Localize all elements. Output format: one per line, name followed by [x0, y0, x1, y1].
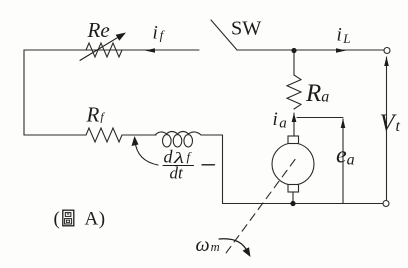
- node junction bottom: [290, 201, 295, 206]
- terminal bottom: [383, 201, 389, 207]
- measurement line Vt: [386, 57, 388, 200]
- wire top right segment: [237, 49, 384, 51]
- wire left vertical: [23, 50, 25, 135]
- arrow ia (up): [292, 113, 297, 122]
- wire top left segment: [24, 49, 199, 51]
- label (圖 A): [54, 209, 106, 230]
- svg-text:Ra: Ra: [305, 80, 329, 107]
- arrow ea (up): [341, 119, 346, 129]
- svg-text:iL: iL: [337, 24, 351, 46]
- shaft dashed line: [226, 160, 295, 254]
- minus dash after fraction: [202, 164, 215, 166]
- wire field right vertical: [222, 135, 224, 204]
- svg-text:(: (: [54, 209, 60, 230]
- curved arrow omega-m: [219, 239, 248, 252]
- terminal top: [384, 48, 390, 54]
- resistor Rf: [86, 128, 122, 142]
- svg-text:ωm: ωm: [196, 234, 220, 256]
- arrow iL (right): [336, 48, 346, 53]
- wire field row left: [24, 134, 86, 136]
- arrow Vt (up): [384, 57, 389, 67]
- measurement line ea: [342, 119, 344, 204]
- resistor Ra: [287, 75, 301, 109]
- svg-text:ea: ea: [336, 143, 355, 169]
- svg-text:if: if: [153, 23, 166, 44]
- svg-text:dt: dt: [170, 164, 185, 183]
- svg-text:Re: Re: [87, 18, 110, 42]
- brush bottom: [288, 185, 299, 193]
- svg-text:ia: ia: [273, 109, 287, 132]
- wire inductor to corner: [201, 134, 223, 136]
- wire motor to bottom junction: [292, 192, 294, 204]
- wire armature drop from junction: [293, 51, 295, 76]
- wire between Rf and inductor: [122, 134, 156, 136]
- wire Ra to motor: [293, 113, 295, 136]
- resistor Re: [86, 43, 122, 57]
- node junction top: [291, 48, 296, 53]
- motor armature M1: [272, 143, 314, 185]
- svg-text:Vt: Vt: [380, 110, 401, 137]
- svg-text:A): A): [85, 209, 106, 230]
- svg-text:f: f: [187, 149, 193, 164]
- arrow through Re (rheostat): [80, 37, 119, 61]
- curved arrow to field inductor: [135, 141, 158, 165]
- inductor Lf: [155, 132, 201, 148]
- wire ea reference line: [297, 117, 343, 119]
- switch SW blade: [211, 20, 237, 50]
- svg-text:SW: SW: [231, 18, 262, 40]
- label d-lambda-f/dt fraction: [163, 147, 194, 183]
- svg-text:Rf: Rf: [86, 103, 106, 127]
- wire bottom: [223, 203, 384, 205]
- brush top: [288, 136, 299, 144]
- arrow if (left): [145, 48, 155, 53]
